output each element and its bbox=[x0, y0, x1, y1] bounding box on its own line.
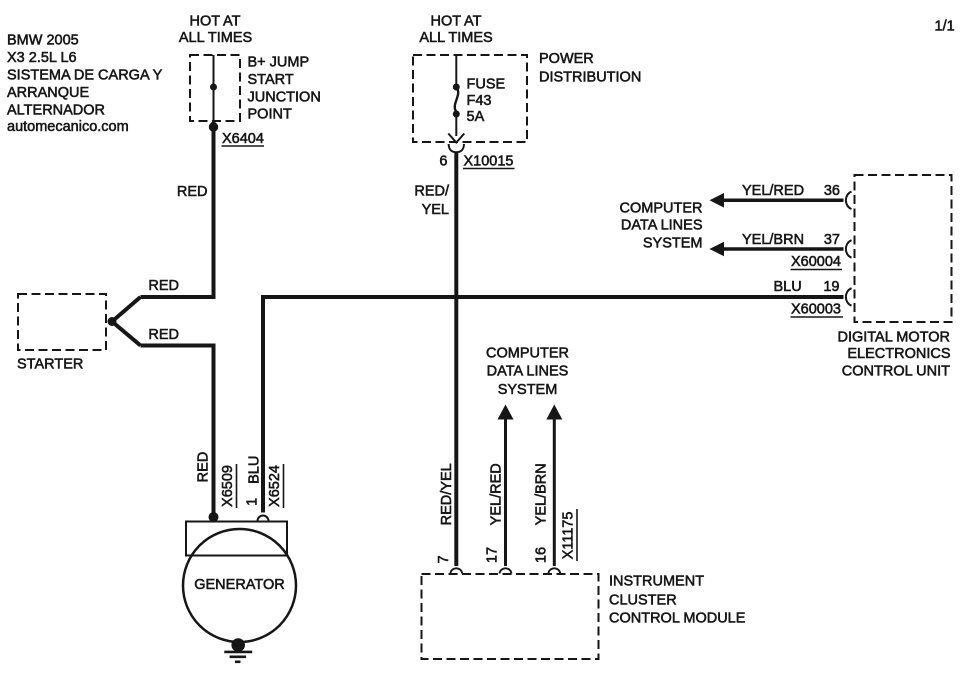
svg-text:COMPUTER: COMPUTER bbox=[620, 201, 703, 217]
svg-text:STARTER: STARTER bbox=[17, 357, 83, 373]
svg-text:POINT: POINT bbox=[248, 107, 292, 123]
svg-text:7: 7 bbox=[436, 555, 452, 563]
svg-text:B+ JUMP: B+ JUMP bbox=[248, 55, 310, 71]
svg-text:X60003: X60003 bbox=[791, 302, 841, 318]
svg-text:RED/YEL: RED/YEL bbox=[439, 463, 455, 525]
svg-text:START: START bbox=[248, 72, 294, 88]
svg-text:ELECTRONICS: ELECTRONICS bbox=[847, 346, 950, 362]
svg-text:ARRANQUE: ARRANQUE bbox=[7, 85, 90, 101]
svg-text:SYSTEM: SYSTEM bbox=[643, 236, 703, 252]
svg-text:ALL TIMES: ALL TIMES bbox=[179, 30, 252, 46]
svg-text:YEL/RED: YEL/RED bbox=[742, 183, 804, 199]
svg-text:YEL: YEL bbox=[422, 202, 449, 218]
svg-text:YEL/RED: YEL/RED bbox=[488, 463, 504, 525]
svg-text:RED: RED bbox=[148, 278, 179, 294]
svg-text:X60004: X60004 bbox=[791, 254, 841, 270]
svg-text:36: 36 bbox=[824, 183, 840, 199]
svg-text:CONTROL UNIT: CONTROL UNIT bbox=[842, 364, 950, 380]
svg-text:ALTERNADOR: ALTERNADOR bbox=[7, 102, 105, 118]
svg-text:BLU: BLU bbox=[246, 456, 262, 484]
svg-text:1: 1 bbox=[245, 498, 261, 506]
svg-text:DATA LINES: DATA LINES bbox=[487, 364, 569, 380]
svg-text:BLU: BLU bbox=[774, 279, 802, 295]
svg-text:X6509: X6509 bbox=[220, 465, 236, 507]
svg-text:YEL/BRN: YEL/BRN bbox=[742, 232, 804, 248]
svg-text:5A: 5A bbox=[467, 109, 485, 125]
svg-text:DISTRIBUTION: DISTRIBUTION bbox=[539, 70, 641, 86]
svg-text:JUNCTION: JUNCTION bbox=[248, 90, 321, 106]
svg-text:SISTEMA DE CARGA Y: SISTEMA DE CARGA Y bbox=[7, 67, 163, 83]
svg-text:HOT AT: HOT AT bbox=[189, 13, 240, 29]
svg-text:X11175: X11175 bbox=[561, 512, 577, 560]
svg-text:37: 37 bbox=[824, 232, 840, 248]
svg-text:X10015: X10015 bbox=[464, 154, 514, 170]
svg-text:DATA LINES: DATA LINES bbox=[621, 218, 703, 234]
svg-text:FUSE: FUSE bbox=[467, 77, 506, 93]
svg-text:6: 6 bbox=[439, 154, 447, 170]
svg-text:RED: RED bbox=[177, 184, 208, 200]
svg-text:YEL/BRN: YEL/BRN bbox=[534, 463, 550, 525]
svg-text:GENERATOR: GENERATOR bbox=[194, 577, 285, 593]
svg-text:RED: RED bbox=[196, 452, 212, 483]
svg-text:X6404: X6404 bbox=[222, 131, 264, 147]
svg-text:19: 19 bbox=[823, 279, 839, 295]
svg-text:CLUSTER: CLUSTER bbox=[609, 593, 677, 609]
svg-text:COMPUTER: COMPUTER bbox=[486, 346, 569, 362]
svg-text:X3 2.5L L6: X3 2.5L L6 bbox=[7, 50, 77, 66]
svg-text:X6524: X6524 bbox=[267, 465, 283, 507]
svg-text:ALL TIMES: ALL TIMES bbox=[419, 30, 492, 46]
svg-text:CONTROL MODULE: CONTROL MODULE bbox=[609, 611, 746, 627]
svg-text:SYSTEM: SYSTEM bbox=[498, 382, 558, 398]
svg-text:BMW 2005: BMW 2005 bbox=[7, 32, 79, 48]
svg-text:automecanico.com: automecanico.com bbox=[7, 119, 129, 135]
svg-text:RED: RED bbox=[148, 327, 179, 343]
svg-text:HOT AT: HOT AT bbox=[430, 13, 481, 29]
svg-text:POWER: POWER bbox=[539, 51, 594, 67]
svg-text:F43: F43 bbox=[467, 93, 492, 109]
svg-text:17: 17 bbox=[484, 547, 500, 563]
svg-text:RED/: RED/ bbox=[414, 184, 450, 200]
svg-text:DIGITAL MOTOR: DIGITAL MOTOR bbox=[837, 330, 950, 346]
svg-text:INSTRUMENT: INSTRUMENT bbox=[609, 574, 704, 590]
svg-text:16: 16 bbox=[533, 547, 549, 563]
svg-text:1/1: 1/1 bbox=[935, 19, 955, 35]
